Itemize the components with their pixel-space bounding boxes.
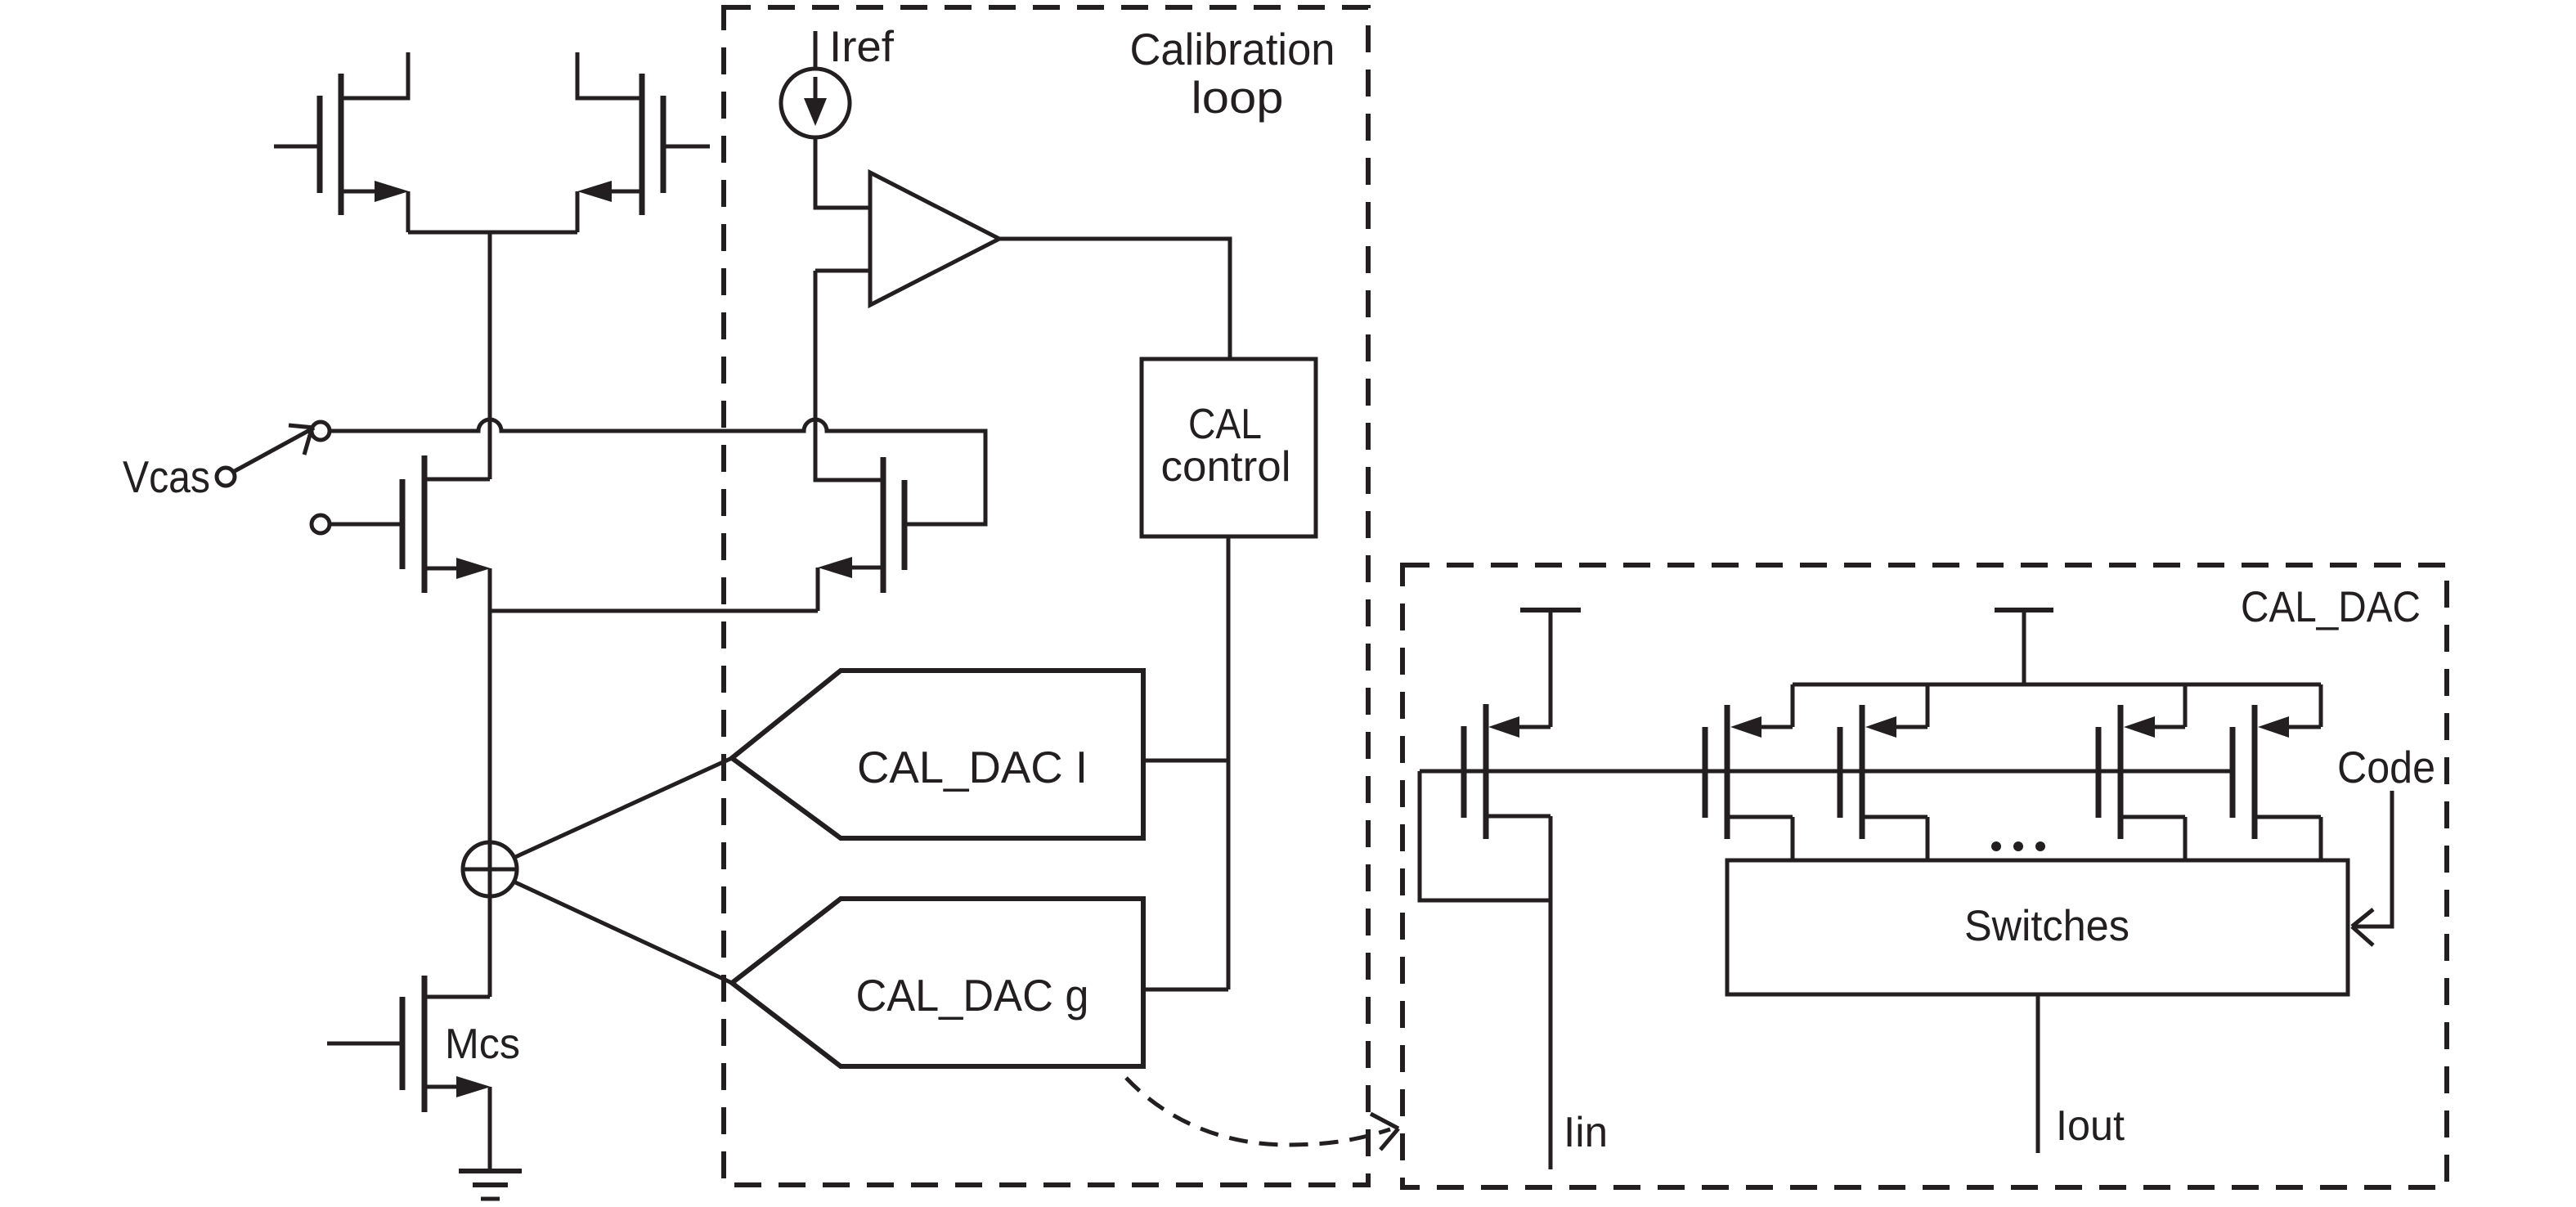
wire diagonal to CAL_DAC g <box>514 882 732 983</box>
wire PMOS pair common tail <box>408 231 577 235</box>
wire Code input arrow <box>2352 791 2392 945</box>
CAL_DAC g block <box>732 899 1143 1066</box>
transistor bank M3 (mirror PMOS) <box>2098 684 2185 860</box>
calibration loop dashed box <box>724 7 1368 1185</box>
node gate input terminal <box>312 515 330 533</box>
wire down to summing node and Mcs <box>488 611 492 997</box>
wire Vcas rail with hops <box>330 420 985 524</box>
wire tail vertical to N1 drain (crosses Vcas rail) <box>488 232 492 479</box>
wire CAL_DAC I to control bus <box>1143 759 1228 763</box>
transistor P2 (top-right PMOS of pair) <box>577 52 710 232</box>
wire N1 gate stub <box>330 523 402 527</box>
node Vcas terminal <box>217 468 235 486</box>
node rail input terminal <box>312 422 330 440</box>
calibration loop title <box>1130 24 1335 123</box>
transistor bank M2 (mirror PMOS) <box>1840 684 1928 860</box>
wire source bus <box>1793 683 2321 687</box>
transistor Mcs (bias NMOS) <box>327 976 491 1171</box>
svg-text:Mcs: Mcs <box>445 1021 520 1068</box>
node summing junction (circled plus) <box>463 842 517 896</box>
wire Iin branch <box>1549 816 1553 1169</box>
current source Iref <box>781 31 850 137</box>
wire diode connection <box>1420 771 1551 900</box>
svg-text:Iout: Iout <box>2056 1102 2125 1150</box>
svg-text:control: control <box>1161 443 1291 491</box>
transistor bank M4 (mirror PMOS) <box>2233 684 2321 860</box>
CAL control block <box>1142 359 1316 536</box>
svg-text:Switches: Switches <box>1964 902 2129 950</box>
switch wiper from Vcas <box>235 425 314 471</box>
wire diagonal to CAL_DAC I <box>514 758 732 858</box>
dashed arrow CAL_DAC g to CAL_DAC block <box>1126 1078 1398 1150</box>
transistor bank M1 (mirror PMOS) <box>1705 684 1793 860</box>
svg-text:CAL_DAC I: CAL_DAC I <box>857 742 1088 792</box>
svg-text:Vcas: Vcas <box>123 451 210 502</box>
svg-text:CAL_DAC g: CAL_DAC g <box>856 970 1089 1021</box>
wire amp output to CAL control <box>999 239 1230 359</box>
svg-text:Iin: Iin <box>1564 1109 1608 1156</box>
wire source interconnect N1-N2 <box>490 609 818 613</box>
transistor N1 (left cascode NMOS) <box>402 455 491 611</box>
svg-text:Calibration: Calibration <box>1130 24 1335 74</box>
transistor P1 (top-left PMOS of pair) <box>274 52 409 232</box>
wire Iref to amp + input <box>815 137 868 208</box>
node ellipsis dots <box>1991 841 2045 851</box>
ground <box>459 1171 522 1199</box>
transistor M0 (diode-connected mirror PMOS) <box>1464 704 1551 839</box>
wire amp - input <box>815 269 870 273</box>
wire mirror gate rail <box>1420 770 2231 774</box>
svg-text:CAL_DAC: CAL_DAC <box>2241 583 2421 631</box>
power supply stub 2 <box>1995 610 2053 684</box>
svg-text:CAL: CAL <box>1188 401 1262 448</box>
power supply stub 1 <box>1520 610 1581 727</box>
Switches block <box>1727 860 2348 994</box>
CAL control label <box>1161 401 1291 491</box>
CAL_DAC dashed box <box>1402 565 2447 1187</box>
svg-text:loop: loop <box>1192 72 1284 123</box>
svg-text:Iref: Iref <box>829 23 894 71</box>
wire CAL control output bus <box>1227 536 1231 989</box>
wire Iout <box>2036 994 2040 1153</box>
svg-text:Code: Code <box>2337 742 2435 792</box>
transistor N2 (right cascode NMOS) <box>815 271 904 611</box>
wire CAL_DAC g to control bus <box>1143 988 1228 992</box>
op-amp comparator triangle <box>870 173 999 305</box>
CAL_DAC I block <box>732 671 1143 838</box>
